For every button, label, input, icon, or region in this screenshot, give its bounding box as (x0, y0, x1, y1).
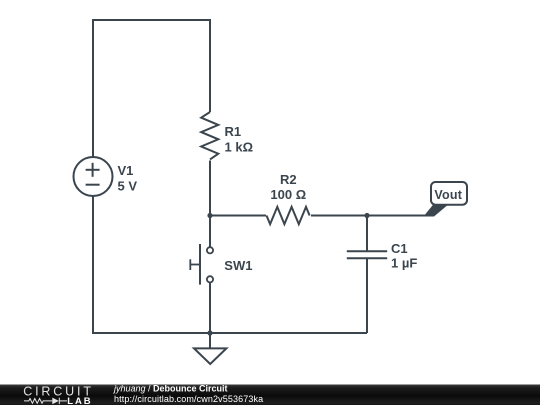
wire node A to R2 (210, 215, 266, 217)
capacitor C1 (347, 251, 387, 258)
wire node B to C1 top (366, 216, 368, 252)
resistor R2 (267, 207, 310, 224)
svg-text:C1: C1 (391, 241, 408, 256)
svg-text:R1: R1 (225, 124, 242, 139)
wire R1 top lead (209, 19, 211, 112)
svg-text:jyhuang / Debounce Circuit: jyhuang / Debounce Circuit (113, 383, 228, 393)
logo resistor-diode line (24, 398, 67, 404)
svg-text:100 Ω: 100 Ω (270, 187, 306, 202)
svg-text:1 kΩ: 1 kΩ (225, 139, 254, 154)
footer bar (0, 385, 540, 405)
ground (194, 333, 226, 364)
wire bottom horizontal (92, 332, 367, 334)
wire top horizontal (93, 19, 210, 21)
svg-text:5 V: 5 V (118, 178, 138, 193)
switch SW1 (190, 244, 213, 285)
svg-text:V1: V1 (118, 163, 134, 178)
resistor R1 (201, 112, 218, 159)
svg-text:1 µF: 1 µF (391, 256, 417, 271)
node C junction dot (207, 330, 212, 335)
wire R2 to Vout (311, 215, 429, 217)
svg-text:LAB: LAB (67, 396, 92, 405)
wire left vertical upper (V1 top lead) (92, 19, 94, 157)
wire C1 bottom lead (366, 258, 368, 333)
wire R1 bottom lead (209, 161, 211, 216)
net flag Vout box (431, 182, 467, 205)
wire SW1 bottom lead (209, 283, 211, 334)
node A junction dot (207, 213, 212, 218)
net flag Vout tail (424, 205, 449, 217)
wire node A to SW1 top (209, 216, 211, 248)
svg-text:R2: R2 (280, 172, 297, 187)
wire left vertical lower (V1 bottom lead) (92, 196, 94, 333)
node B junction dot (364, 213, 369, 218)
svg-text:SW1: SW1 (224, 258, 252, 273)
svg-text:Vout: Vout (434, 188, 462, 202)
svg-text:http://circuitlab.com/cwn2v553: http://circuitlab.com/cwn2v553673ka (114, 394, 263, 404)
voltage source V1 (74, 157, 113, 196)
